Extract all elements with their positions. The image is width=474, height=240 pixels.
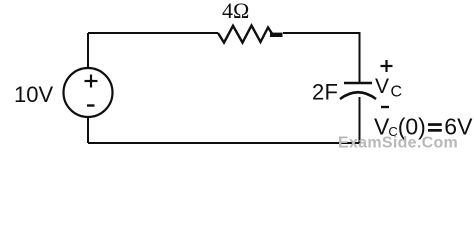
capacitor minus polarity mark — [381, 106, 389, 108]
node label equals sign — [428, 123, 442, 126]
resistor R 4ohm zigzag — [218, 26, 272, 43]
voltage source V1 circle — [64, 68, 113, 117]
capacitor C 2F curved plate — [340, 92, 376, 99]
voltage source plus sign — [85, 75, 98, 88]
svg-text:C: C — [391, 84, 403, 101]
svg-text:10V: 10V — [14, 82, 53, 107]
svg-text:4Ω: 4Ω — [222, 0, 249, 23]
wire top-right segment — [283, 33, 360, 83]
svg-text:F: F — [325, 80, 338, 105]
wire thick stub right of resistor — [270, 33, 283, 37]
wire left-bottom stub — [87, 118, 89, 144]
svg-text:V: V — [375, 75, 389, 98]
capacitor C 2F top plate — [344, 82, 372, 85]
wire right-bottom segment — [88, 97, 360, 143]
svg-text:2: 2 — [312, 80, 324, 105]
wire left-top stub — [87, 33, 89, 68]
svg-text:ExamSide.Com: ExamSide.Com — [338, 135, 458, 152]
voltage source minus sign — [87, 104, 95, 106]
capacitor plus polarity mark — [381, 60, 393, 72]
wire top-left segment — [88, 32, 218, 34]
